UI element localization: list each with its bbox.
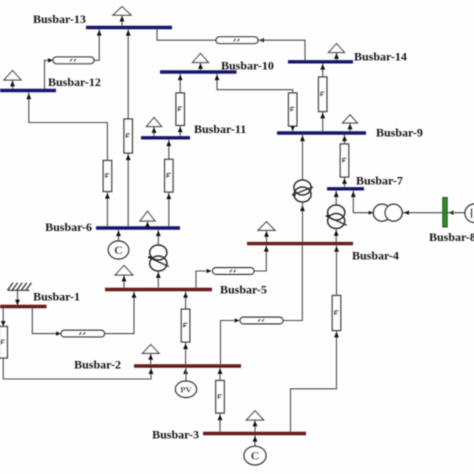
svg-text:C: C bbox=[114, 243, 123, 257]
svg-text:Busbar-2: Busbar-2 bbox=[74, 358, 121, 372]
svg-text:Busbar-12: Busbar-12 bbox=[48, 75, 101, 89]
svg-text:Busbar-3: Busbar-3 bbox=[152, 428, 199, 442]
svg-text:Busbar-7: Busbar-7 bbox=[356, 174, 403, 188]
svg-text:PV: PV bbox=[180, 384, 192, 394]
svg-text:Busbar-6: Busbar-6 bbox=[45, 220, 92, 234]
svg-text:Busbar-13: Busbar-13 bbox=[33, 12, 86, 26]
svg-text:Busbar-8: Busbar-8 bbox=[429, 230, 474, 244]
svg-text:Busbar-1: Busbar-1 bbox=[33, 290, 80, 304]
svg-text:Busbar-11: Busbar-11 bbox=[194, 122, 246, 136]
svg-text:C: C bbox=[251, 449, 260, 463]
svg-text:Busbar-9: Busbar-9 bbox=[376, 126, 423, 140]
svg-text:Busbar-4: Busbar-4 bbox=[352, 249, 399, 263]
svg-text:Busbar-5: Busbar-5 bbox=[220, 283, 267, 297]
svg-text:Busbar-10: Busbar-10 bbox=[221, 59, 274, 73]
svg-text:Busbar-14: Busbar-14 bbox=[354, 50, 407, 64]
